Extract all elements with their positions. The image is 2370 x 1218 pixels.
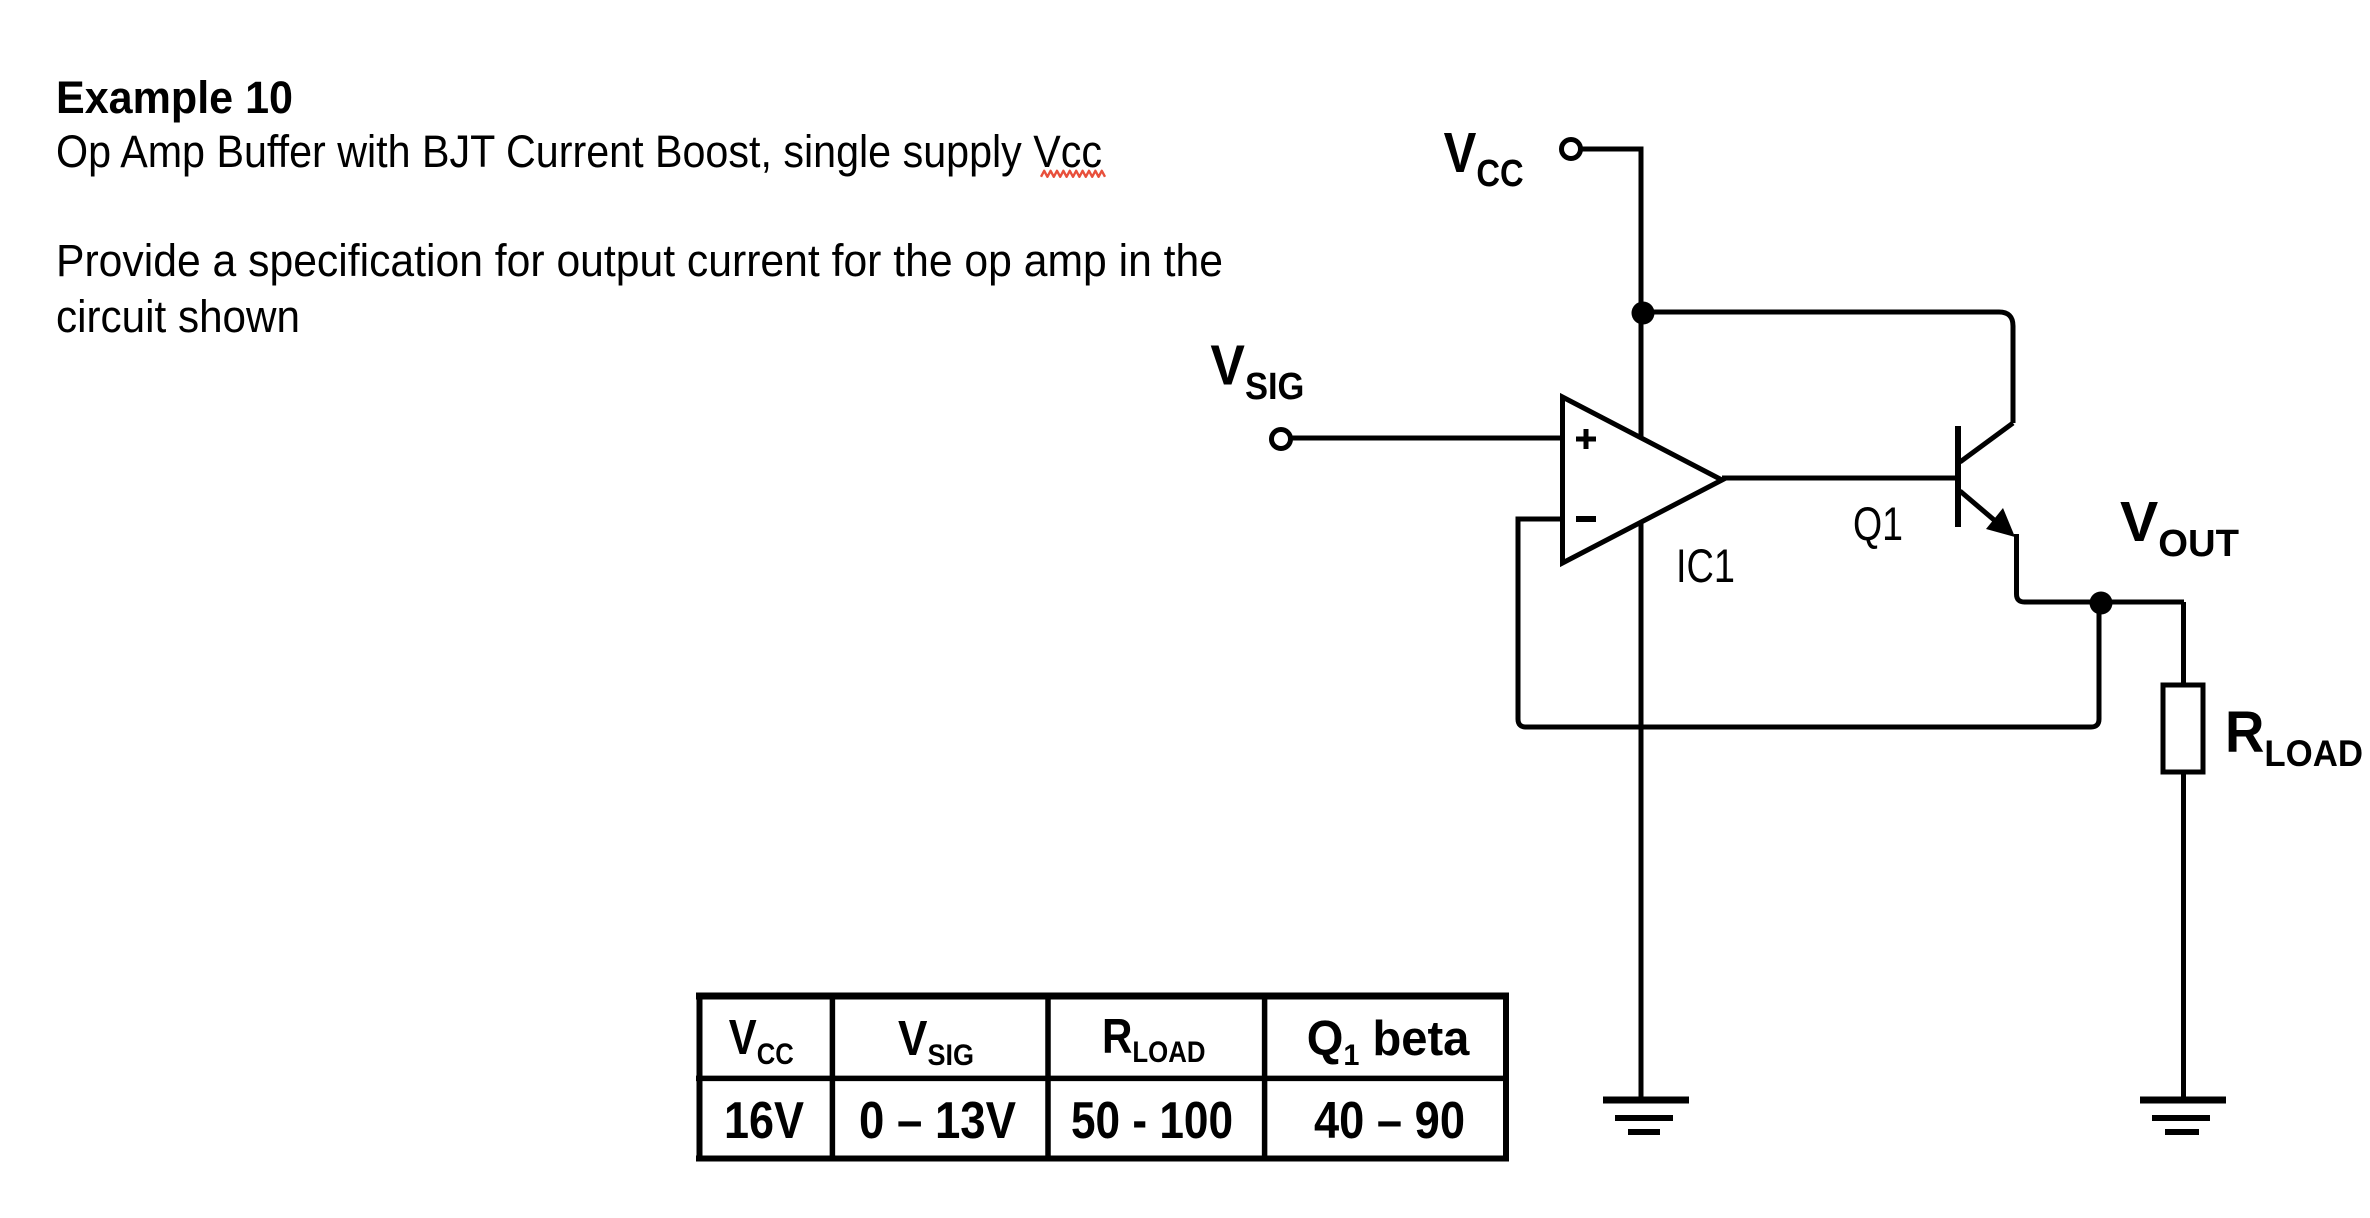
svg-text:40 – 90: 40 – 90 (1314, 1092, 1465, 1150)
op-amp - pin mark (1576, 516, 1596, 522)
op-amp U1 triangle (1563, 397, 1723, 563)
svg-text:Provide a specification for ou: Provide a specification for output curre… (56, 235, 1223, 286)
transistor Q1 base bar (1955, 426, 1961, 527)
terminal Vcc (open circle) (1562, 140, 1581, 159)
terminal Vsig (open circle) (1272, 430, 1291, 449)
svg-text:50 - 100: 50 - 100 (1071, 1092, 1233, 1150)
table column dividers (830, 996, 836, 1158)
resistor RLOAD body (2163, 685, 2203, 772)
ground left (1603, 1097, 1689, 1104)
wire feedback: - input to Vout node (1518, 519, 2099, 727)
op-amp + pin mark (1576, 429, 1596, 449)
node supply junction (1632, 302, 1655, 325)
wire supply rail down to ground (through op-amp power pins) (1639, 313, 1644, 1100)
wire resistor to right ground (2181, 772, 2186, 1100)
svg-text:0 – 13V: 0 – 13V (859, 1092, 1016, 1150)
svg-text:16V: 16V (724, 1092, 804, 1150)
transistor Q1 emitter arrowhead (1986, 508, 2015, 537)
ground right (2140, 1097, 2226, 1104)
svg-text:Example 10: Example 10 (56, 72, 293, 123)
wire Vout node down to resistor (2181, 602, 2186, 685)
table row divider (696, 1076, 1509, 1082)
transistor Q1 collector diagonal (1960, 423, 2013, 462)
wire Q1 emitter to Vout node (2017, 534, 2185, 602)
wire op-amp output to Q1 base (1722, 476, 1958, 481)
table outer border (696, 993, 1509, 1000)
svg-text:Q1: Q1 (1853, 497, 1903, 550)
spellcheck squiggle under Vcc (1041, 171, 1105, 177)
wire junction to Q1 collector (1643, 312, 2013, 423)
wire Vsig to op-amp + input (1291, 436, 1563, 441)
svg-text:Op Amp Buffer with BJT Current: Op Amp Buffer with BJT Current Boost, si… (56, 126, 1102, 177)
svg-text:Q1 beta: Q1 beta (1307, 1012, 1470, 1072)
transistor Q1 emitter diagonal (1960, 491, 2000, 525)
svg-text:IC1: IC1 (1676, 539, 1735, 592)
wire Vcc terminal to supply rail (1581, 149, 1641, 313)
svg-text:circuit shown: circuit shown (56, 291, 300, 342)
node Vout junction (2090, 592, 2113, 615)
